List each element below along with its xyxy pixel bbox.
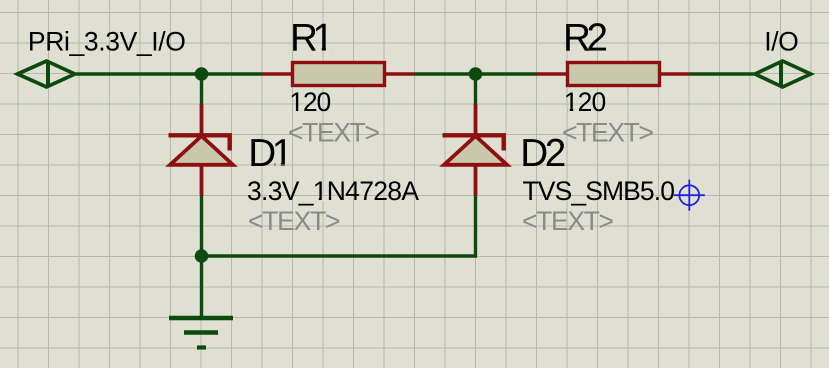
svg-text:R2: R2 (563, 17, 608, 60)
zener diode D1 (169, 104, 234, 196)
svg-text:<TEXT>: <TEXT> (288, 118, 380, 148)
svg-text:D1: D1 (248, 132, 293, 175)
svg-text:120: 120 (289, 87, 331, 117)
origin marker (blue) (674, 180, 705, 211)
zener diode D2 (443, 104, 508, 196)
wire bottom D1 to D2 (202, 196, 476, 257)
svg-text:3.3V_1N4728A: 3.3V_1N4728A (247, 176, 419, 206)
resistor R1 (262, 63, 415, 86)
wire R2 to terminal I/O (689, 72, 754, 75)
resistor R2 (537, 63, 690, 86)
svg-text:<TEXT>: <TEXT> (248, 206, 341, 236)
wire junction2 to D2 pin (474, 74, 477, 105)
wire D1 pin to ground junction (200, 196, 203, 257)
node junction at D1 top (195, 67, 209, 81)
wire junction1 to D1 pin (200, 74, 203, 105)
svg-text:D2: D2 (520, 132, 566, 175)
svg-text:TVS_SMB5.0: TVS_SMB5.0 (523, 176, 676, 206)
node junction at D2 top (469, 67, 483, 81)
wire R1 to junction2 (415, 72, 537, 75)
wire terminal to R1 (76, 72, 262, 75)
svg-text:<TEXT>: <TEXT> (522, 206, 614, 236)
svg-text:R1: R1 (290, 17, 334, 60)
terminal PRi_3.3V_I/O (18, 61, 75, 87)
svg-text:I/O: I/O (764, 27, 799, 57)
ground (169, 256, 233, 348)
terminal I/O (755, 61, 811, 87)
svg-text:<TEXT>: <TEXT> (562, 118, 654, 148)
svg-text:120: 120 (564, 87, 607, 117)
svg-text:PRi_3.3V_I/O: PRi_3.3V_I/O (28, 27, 186, 57)
node junction at ground (195, 249, 209, 263)
